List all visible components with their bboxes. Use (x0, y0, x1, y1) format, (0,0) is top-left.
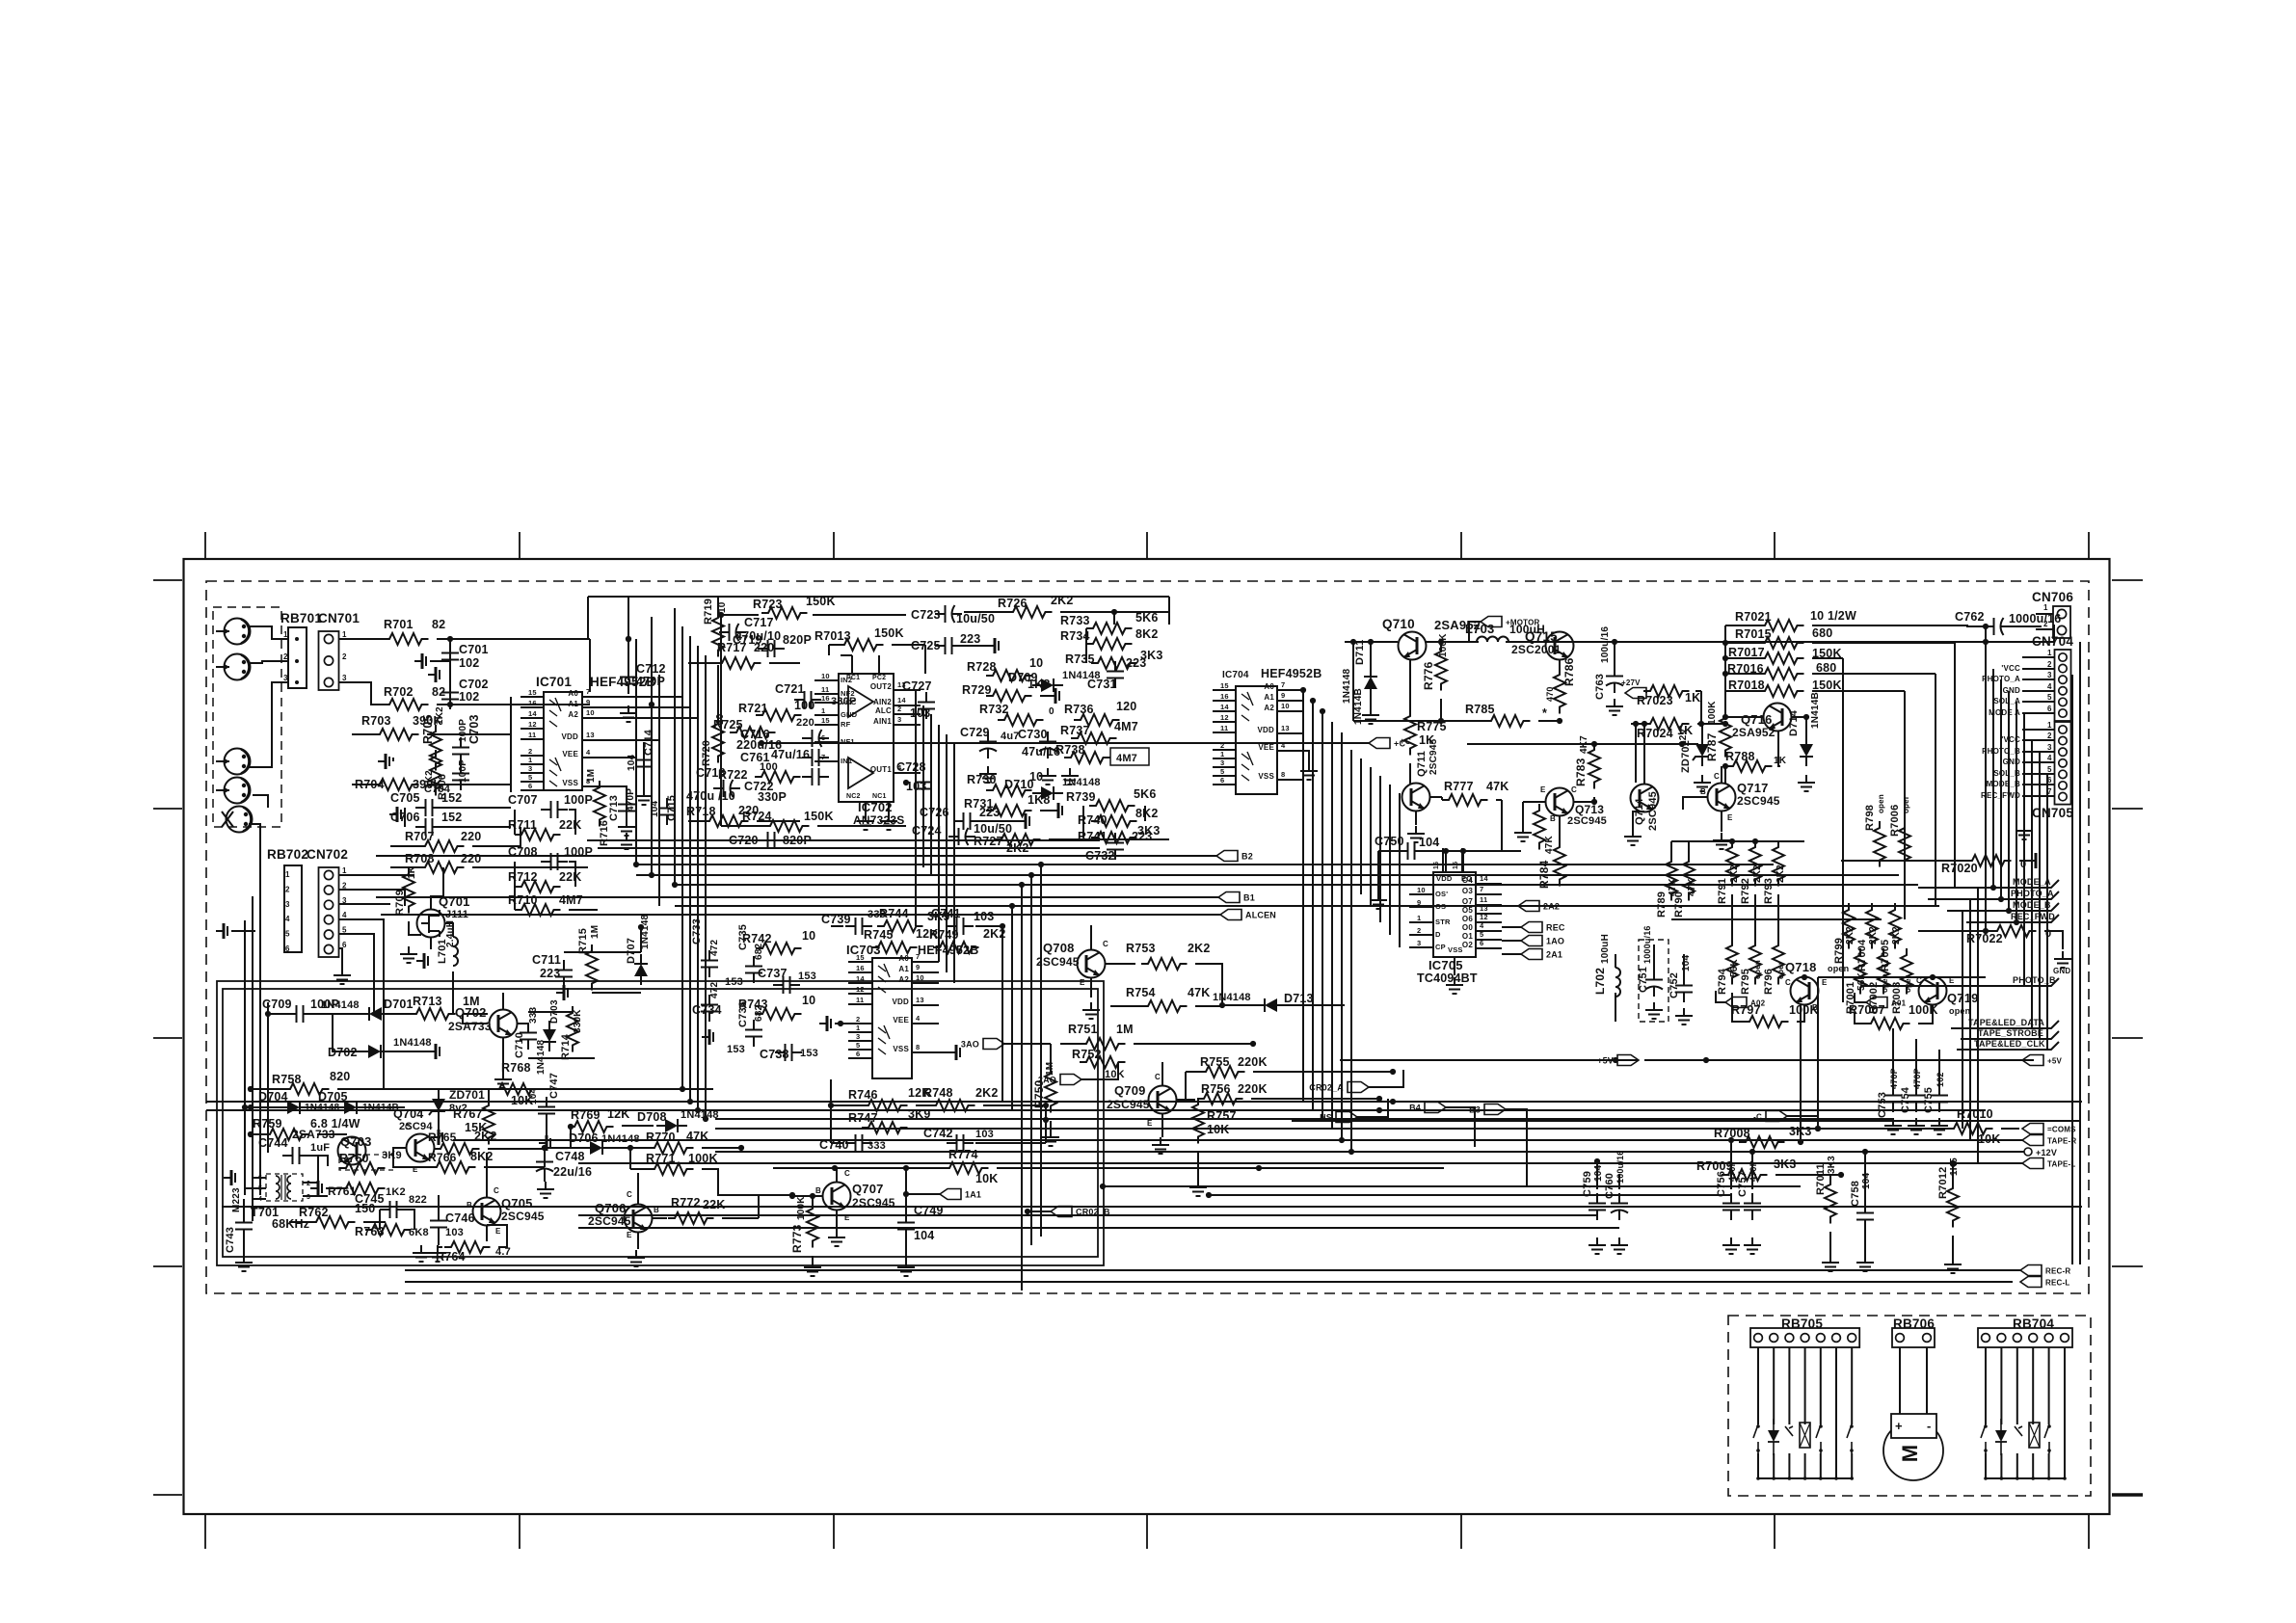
wire (578, 1162, 1783, 1164)
ground (1407, 826, 1425, 842)
wire (570, 1127, 572, 1148)
wire (715, 1128, 1818, 1130)
svg-text:OS': OS' (1435, 890, 1448, 898)
svg-text:B2: B2 (1241, 852, 1253, 862)
wire (1952, 1236, 1954, 1257)
svg-text:R739: R739 (1066, 790, 1096, 804)
wire (1644, 1059, 2034, 1061)
svg-text:R737: R737 (1060, 724, 1090, 737)
svg-text:Q707: Q707 (852, 1182, 884, 1196)
resistor R706 (430, 750, 441, 796)
capacitor C729 (979, 732, 997, 758)
capacitor C713 (618, 794, 635, 821)
wire (381, 914, 1220, 916)
svg-text:Q718: Q718 (1785, 960, 1817, 974)
resistor R747 (862, 1122, 908, 1133)
svg-text:153: 153 (725, 976, 743, 988)
IC703 pin 5 (848, 1049, 872, 1051)
wire (376, 855, 1216, 857)
svg-text:15: 15 (821, 716, 830, 725)
wire (1506, 641, 2054, 643)
svg-text:R709: R709 (394, 890, 406, 916)
svg-text:R719: R719 (703, 599, 714, 625)
IC702 pin 11 (814, 693, 839, 695)
wire (1962, 911, 1963, 1129)
wire (1559, 815, 1561, 840)
svg-text:+27V: +27V (1621, 678, 1641, 687)
wire (1725, 642, 1758, 644)
resistor R713 (410, 1008, 456, 1020)
wire (878, 655, 880, 674)
node 3A0 (961, 1039, 1004, 1050)
svg-text:E: E (495, 1227, 501, 1236)
switch S5 (2044, 1424, 2049, 1453)
IC701 pin 9 (582, 706, 690, 708)
IC IC704 (1236, 686, 1277, 794)
svg-text:1AO: 1AO (1546, 937, 1564, 946)
wire (376, 896, 1218, 898)
svg-text:oper: oper (1902, 796, 1910, 813)
wire (1028, 1211, 1051, 1212)
resistor R748 (929, 1100, 975, 1111)
wire (381, 914, 1220, 916)
wire (1842, 658, 1844, 1002)
wire (773, 1167, 943, 1169)
svg-text:R753: R753 (1126, 942, 1156, 955)
diode D704 (279, 1101, 309, 1114)
svg-text:C721: C721 (775, 682, 805, 696)
head block dashed border (213, 607, 281, 827)
svg-text:R715: R715 (577, 928, 589, 954)
svg-text:R730: R730 (967, 773, 997, 786)
wire (1021, 885, 1023, 1290)
switch S2 (1816, 1424, 1821, 1453)
svg-text:D706: D706 (569, 1131, 599, 1145)
svg-text:Q710: Q710 (1382, 617, 1415, 631)
resistor R729 (986, 690, 1032, 702)
switch S3 (1847, 1424, 1852, 1453)
svg-text:12V: 12V (1678, 728, 1689, 746)
resistor R721 (756, 709, 802, 721)
node B3 (1469, 1104, 1506, 1115)
capacitor C703 (452, 737, 469, 764)
svg-text:AIN1: AIN1 (873, 717, 892, 726)
resistor R703 (373, 729, 419, 740)
wire (915, 690, 917, 926)
wire (1081, 1062, 1118, 1079)
wire (1818, 976, 1986, 978)
svg-text:R716: R716 (599, 820, 610, 846)
svg-text:TAPE&LED_CLK: TAPE&LED_CLK (1974, 1039, 2045, 1049)
wire (905, 1168, 907, 1212)
ground (539, 1135, 550, 1151)
wire (1778, 731, 1780, 766)
wire (828, 645, 830, 655)
wire (1370, 642, 1372, 667)
wire (1415, 811, 1417, 825)
node +12V (2024, 1148, 2032, 1156)
resistor R746 (862, 1100, 908, 1111)
capacitor C763 (1606, 666, 1623, 693)
svg-text:2: 2 (285, 885, 290, 893)
ground (1675, 1008, 1693, 1024)
svg-text:IC704: IC704 (1222, 670, 1249, 680)
svg-text:15: 15 (1220, 681, 1229, 690)
diode D710 (1032, 786, 1063, 800)
node 1A1 (940, 1189, 981, 1200)
svg-text:2K2: 2K2 (1729, 865, 1740, 883)
resistor R7010 (1947, 1123, 1993, 1134)
wire (463, 1014, 488, 1024)
capacitor C760 (1611, 1193, 1628, 1220)
svg-text:2SC945: 2SC945 (1737, 794, 1780, 808)
wire (1797, 1004, 1804, 1022)
svg-text:C: C (494, 1186, 499, 1195)
wire (430, 660, 450, 662)
wire (1110, 1005, 1141, 1007)
resistor R759 (263, 1129, 309, 1140)
resistor R716 (594, 781, 605, 827)
node +C (1369, 738, 1405, 749)
svg-text:GND: GND (2003, 758, 2020, 766)
node B2 (1216, 851, 1253, 862)
IC701 pin 12 (521, 728, 544, 730)
wire (1928, 898, 2001, 900)
wire (1040, 810, 1051, 811)
capacitor C737 (773, 976, 800, 994)
resistor R785 (1484, 715, 1531, 727)
wire (922, 705, 924, 867)
wire (1835, 1347, 1837, 1424)
svg-text:R742: R742 (742, 932, 772, 945)
wire (1835, 1453, 1837, 1478)
resistor R740 (1091, 815, 1137, 827)
svg-text:1K2: 1K2 (435, 706, 445, 725)
wire (1040, 695, 1048, 697)
svg-text:4: 4 (342, 911, 347, 919)
svg-text:R768: R768 (501, 1061, 531, 1075)
wire (630, 1168, 648, 1170)
wire (303, 1156, 318, 1183)
wire (2036, 613, 2053, 615)
border frame (184, 559, 2110, 1514)
wire (547, 1088, 713, 1090)
svg-text:11: 11 (1220, 724, 1228, 732)
svg-text:R775: R775 (1417, 720, 1447, 733)
wire (1732, 993, 1743, 1022)
wire (1829, 1232, 1831, 1255)
connector CN702 (319, 867, 339, 957)
svg-text:1K: 1K (1774, 756, 1787, 766)
svg-text:R726: R726 (998, 597, 1028, 610)
IC704 pin 10 (1277, 710, 1303, 712)
resistor R776 (1435, 645, 1447, 691)
capacitor C734 (701, 995, 718, 1022)
connector CN701 (319, 631, 339, 690)
capacitor C725 (935, 637, 962, 654)
svg-text:C725: C725 (911, 639, 941, 652)
svg-text:2K2: 2K2 (1891, 926, 1902, 945)
svg-text:open: open (1828, 964, 1849, 973)
wire (1841, 860, 1965, 862)
node HS (1320, 1112, 1357, 1123)
wire (1683, 797, 1708, 810)
IC701 pin 16 (521, 706, 544, 708)
resistor R743 (756, 1008, 802, 1020)
svg-text:82: 82 (432, 618, 445, 631)
wire (831, 925, 843, 927)
IC702 pin 1 (814, 714, 839, 716)
svg-text:Q703: Q703 (340, 1134, 372, 1149)
svg-text:RB702: RB702 (267, 847, 308, 862)
svg-text:oper: oper (1776, 962, 1785, 979)
svg-text:68KHz: 68KHz (272, 1217, 309, 1231)
motor M (1883, 1421, 1943, 1480)
resistor R796 (1773, 939, 1784, 985)
svg-text:3K3: 3K3 (1827, 1156, 1837, 1174)
svg-text:B: B (1550, 814, 1556, 823)
svg-text:A2: A2 (1264, 704, 1274, 712)
wire (589, 639, 591, 692)
wire (1322, 711, 1323, 1119)
svg-text:330P: 330P (758, 790, 787, 804)
svg-text:A0: A0 (1264, 682, 1274, 691)
svg-text:D707: D707 (626, 938, 637, 964)
capacitor C733 (701, 950, 718, 977)
capacitor C702 (441, 682, 459, 709)
IC702 pin 2 (894, 713, 921, 715)
zener ZD701 (429, 1090, 445, 1121)
wire (267, 1002, 269, 1153)
svg-text:PHOTO_B: PHOTO_B (2013, 975, 2056, 985)
svg-text:Q709: Q709 (1114, 1083, 1146, 1098)
resistor R728 (986, 670, 1032, 681)
svg-text:R702: R702 (384, 685, 414, 699)
resistor R725 (730, 727, 776, 738)
wire (2000, 679, 2002, 899)
wire (1758, 1477, 1852, 1479)
ground (1514, 825, 1532, 841)
svg-text:C727: C727 (902, 679, 932, 693)
svg-text:C: C (1103, 940, 1108, 948)
wire (245, 1187, 266, 1189)
svg-text:Q706: Q706 (595, 1201, 627, 1215)
connector RB701 (288, 627, 307, 688)
node TAPE-R (2022, 1135, 2076, 1146)
connector RB702 (284, 865, 302, 952)
svg-text:R777: R777 (1444, 780, 1474, 793)
svg-text:150K: 150K (874, 626, 904, 640)
IC701 pin 3 (521, 772, 544, 774)
IC703 pin 11 (848, 1003, 872, 1005)
svg-text:103: 103 (975, 1129, 994, 1140)
svg-text:16: 16 (821, 694, 830, 703)
wire (251, 1088, 283, 1090)
resistor R731 (986, 805, 1032, 816)
svg-text:C: C (1714, 772, 1720, 781)
svg-text:R789: R789 (1656, 891, 1668, 918)
wire (1800, 1003, 1802, 1142)
svg-text:2: 2 (2047, 660, 2052, 669)
wire (758, 1195, 760, 1218)
resistor R710 (515, 904, 561, 916)
capacitor C720 (758, 832, 785, 849)
svg-text:R770: R770 (646, 1131, 676, 1144)
wire (1820, 1453, 1822, 1478)
wire (831, 1104, 862, 1106)
svg-text:ALCEN: ALCEN (1245, 911, 1276, 920)
svg-text:R785: R785 (1465, 703, 1495, 716)
wire (651, 617, 653, 875)
ground (537, 1182, 554, 1198)
capacitor C738 (775, 1044, 802, 1061)
svg-text:220K: 220K (1238, 1082, 1268, 1096)
resistor R732 (998, 714, 1044, 726)
resistor R7005 (1889, 903, 1901, 949)
resistor R762 (309, 1216, 356, 1228)
svg-text:1: 1 (2043, 603, 2048, 612)
svg-text:C711: C711 (532, 953, 561, 967)
svg-text:5K6: 5K6 (1135, 611, 1159, 625)
wire (598, 847, 1100, 849)
svg-text:D701: D701 (384, 998, 414, 1011)
svg-text:8K2: 8K2 (1135, 627, 1159, 641)
wire (439, 1246, 442, 1248)
wire (1614, 642, 1615, 666)
CN704 pin 1 (2022, 656, 2054, 658)
tape head (222, 807, 253, 833)
svg-text:103: 103 (974, 910, 994, 923)
wire (1938, 1050, 1940, 1085)
CN705 pin 6 (2022, 784, 2054, 785)
wire (1725, 625, 1758, 626)
wire (1757, 1347, 1759, 1424)
wire (997, 1167, 1444, 1169)
wire (1045, 1105, 1047, 1143)
svg-text:2: 2 (528, 747, 532, 756)
resistor R736 (1074, 714, 1120, 726)
svg-text:R721: R721 (738, 702, 768, 715)
svg-text:9: 9 (1281, 691, 1285, 700)
wire (1966, 921, 2016, 923)
svg-text:150K: 150K (806, 595, 836, 608)
wire (612, 1147, 630, 1149)
svg-text:1: 1 (1417, 914, 1421, 922)
wire (1251, 1098, 1379, 1100)
wire (1812, 625, 1968, 626)
svg-text:R792: R792 (1740, 878, 1751, 904)
svg-text:E: E (1540, 785, 1546, 794)
svg-text:102: 102 (459, 690, 479, 704)
svg-text:R748: R748 (923, 1086, 953, 1100)
wire (1918, 930, 1990, 932)
ground (948, 1045, 960, 1060)
wire (427, 733, 511, 735)
svg-text:R7017: R7017 (1728, 646, 1765, 659)
wire (1462, 851, 1464, 872)
wire (2064, 1424, 2066, 1453)
svg-text:C719: C719 (733, 633, 762, 647)
wire (1082, 806, 1084, 838)
svg-text:150K: 150K (804, 810, 834, 823)
svg-text:R790: R790 (1673, 891, 1685, 918)
svg-text:VSS: VSS (562, 779, 578, 787)
svg-text:3: 3 (283, 674, 288, 682)
svg-text:680: 680 (1812, 626, 1832, 640)
resistor R720 (712, 717, 724, 763)
wire (627, 597, 629, 680)
resistor R798 (1874, 821, 1885, 867)
svg-text:104: 104 (1419, 836, 1439, 849)
resistor R763 (365, 1224, 412, 1236)
svg-text:103: 103 (910, 706, 930, 720)
wire (1222, 1004, 1255, 1006)
wire (1977, 888, 1979, 1163)
wire (1409, 763, 1411, 784)
svg-text:333: 333 (528, 1006, 539, 1024)
svg-text:C: C (844, 1169, 850, 1178)
resistor R730 (986, 785, 1032, 796)
svg-text:R754: R754 (1126, 986, 1156, 999)
wire (253, 1177, 266, 1179)
wire (702, 1147, 741, 1149)
IC704 pin 2 (1213, 749, 1236, 751)
svg-text:C: C (1155, 1073, 1161, 1081)
IC705 pin 13 (1476, 913, 1502, 915)
svg-text:10: 10 (586, 708, 595, 717)
wire (1593, 1162, 1953, 1164)
wire (249, 626, 288, 639)
svg-text:223: 223 (960, 632, 980, 646)
svg-text:472: 472 (709, 939, 720, 956)
diode D714 (1800, 735, 1813, 766)
svg-text:'VCC: 'VCC (2001, 735, 2020, 744)
capacitor C727 (918, 692, 935, 719)
svg-text:C746: C746 (445, 1211, 475, 1225)
wire (1185, 1072, 1187, 1099)
wire (1725, 716, 1764, 718)
IC701 pin 2 (521, 755, 544, 757)
resistor R764 (444, 1241, 491, 1253)
svg-text:R752: R752 (1072, 1048, 1102, 1061)
svg-text:10u/50: 10u/50 (956, 612, 995, 625)
IC702 pin 16 (814, 702, 839, 704)
wire (251, 1133, 263, 1135)
wire (717, 665, 719, 717)
capacitor C755 (1931, 1085, 1948, 1112)
transformer T701 box (266, 1174, 303, 1201)
svg-text:E: E (627, 1231, 632, 1239)
wire (517, 1023, 528, 1024)
svg-text:CN704: CN704 (2032, 634, 2073, 649)
wire (1369, 1070, 1403, 1087)
resistor (1534, 804, 1545, 850)
wire (578, 1227, 1619, 1229)
wire (244, 920, 246, 1195)
svg-text:R714: R714 (560, 1033, 572, 1060)
ground (1744, 1237, 1761, 1254)
resistor R7002 (1878, 948, 1889, 995)
capacitor C751 box (1639, 940, 1669, 1022)
IC702 pin 10 (814, 679, 839, 681)
CN705 pin 1 (2022, 729, 2054, 731)
wire (587, 597, 589, 639)
capacitor C735 (745, 956, 762, 983)
wire (339, 919, 384, 1089)
resistor R795 (1749, 939, 1761, 985)
svg-text:100P: 100P (458, 759, 468, 783)
wire (430, 937, 432, 949)
